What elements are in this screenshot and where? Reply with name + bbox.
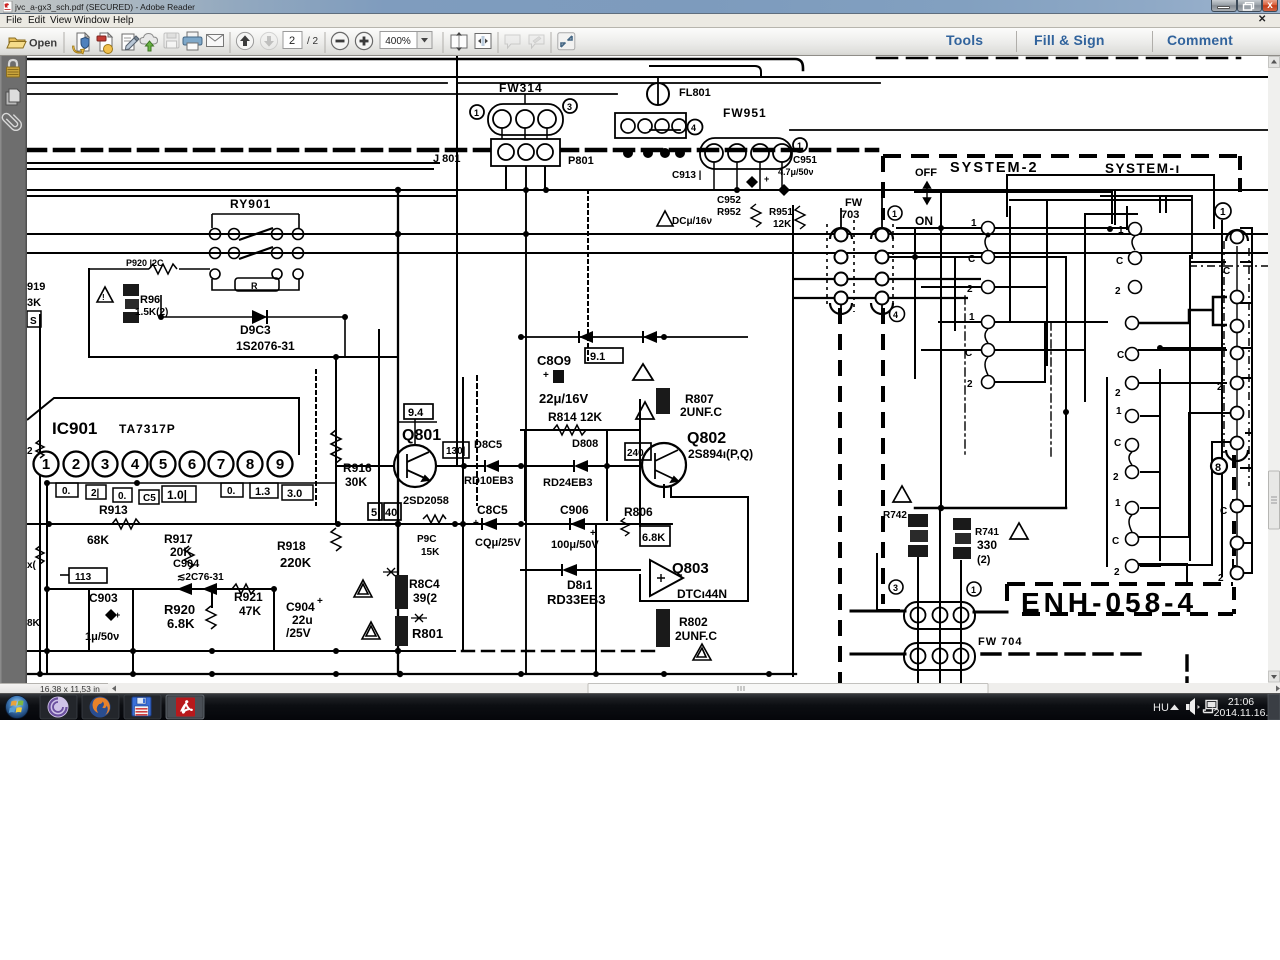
svg-text:R802: R802 — [679, 615, 708, 629]
svg-text:3: 3 — [101, 456, 109, 473]
svg-text:1: 1 — [1116, 406, 1122, 417]
svg-text:C: C — [1117, 350, 1124, 361]
svg-text:C904: C904 — [173, 558, 200, 570]
svg-text:2: 2 — [1113, 472, 1119, 483]
svg-text:R916: R916 — [343, 461, 372, 475]
svg-text:/ 2: / 2 — [307, 36, 319, 47]
svg-text:4.7μ/50ν: 4.7μ/50ν — [778, 167, 814, 177]
svg-text:2: 2 — [27, 446, 33, 457]
svg-text:4: 4 — [893, 310, 898, 320]
svg-text:P920 |2C: P920 |2C — [126, 258, 164, 268]
svg-text:SYSTEM-ı: SYSTEM-ı — [1105, 161, 1181, 176]
svg-text:ENH-058-4: ENH-058-4 — [1021, 587, 1197, 618]
svg-text:R918: R918 — [277, 539, 306, 553]
svg-text:C904: C904 — [286, 600, 315, 614]
svg-text:1: 1 — [42, 456, 50, 473]
svg-text:D8ı1: D8ı1 — [567, 578, 593, 592]
svg-text:C: C — [1116, 256, 1123, 267]
svg-text:240: 240 — [627, 448, 644, 459]
svg-text:R741: R741 — [975, 527, 999, 538]
svg-text:1: 1 — [474, 108, 479, 118]
svg-text:100μ/50V: 100μ/50V — [551, 539, 599, 551]
svg-text:SYSTEM-2: SYSTEM-2 — [950, 160, 1039, 176]
svg-text:ON: ON — [915, 214, 933, 228]
svg-text:C906: C906 — [560, 503, 589, 517]
svg-text:2UNF.C: 2UNF.C — [675, 629, 717, 643]
svg-text:C903: C903 — [89, 591, 118, 605]
svg-text:12K: 12K — [773, 219, 792, 230]
svg-text:R806: R806 — [624, 505, 653, 519]
svg-text:+: + — [115, 610, 120, 620]
svg-text:1: 1 — [971, 218, 977, 229]
svg-text:C951: C951 — [793, 155, 817, 166]
svg-text:P801: P801 — [568, 155, 594, 167]
svg-text:R: R — [251, 281, 258, 291]
svg-text:2: 2 — [1217, 382, 1223, 393]
svg-text:R807: R807 — [685, 392, 714, 406]
svg-text:R814 12K: R814 12K — [548, 410, 602, 424]
svg-text:D808: D808 — [572, 438, 598, 450]
svg-text:/25V: /25V — [286, 626, 311, 640]
svg-text:FW 704: FW 704 — [978, 636, 1023, 648]
svg-text:C: C — [1223, 266, 1230, 277]
svg-text:40: 40 — [385, 507, 397, 519]
svg-text:2SD2058: 2SD2058 — [403, 495, 449, 507]
svg-text:FW: FW — [845, 197, 863, 209]
svg-text:x(: x( — [27, 560, 37, 571]
svg-text:3K: 3K — [27, 297, 41, 309]
svg-text:DTCı44N: DTCı44N — [677, 587, 727, 601]
svg-text:Q801: Q801 — [402, 427, 441, 444]
svg-text:9: 9 — [276, 456, 284, 473]
svg-text:R8C4: R8C4 — [409, 577, 440, 591]
svg-text:1: 1 — [1115, 498, 1121, 509]
svg-text:C: C — [968, 254, 975, 265]
svg-text:1.3: 1.3 — [255, 486, 270, 498]
svg-text:R917: R917 — [164, 532, 193, 546]
svg-text:7: 7 — [217, 456, 225, 473]
svg-text:+: + — [543, 370, 549, 381]
svg-text:8K: 8K — [27, 618, 41, 629]
svg-text:68K: 68K — [87, 533, 109, 547]
svg-text:R951: R951 — [769, 207, 793, 218]
svg-text:22μ/16V: 22μ/16V — [539, 391, 588, 406]
svg-text:703: 703 — [841, 209, 859, 221]
svg-text:22u: 22u — [292, 613, 313, 627]
svg-text:C8C5: C8C5 — [477, 503, 508, 517]
svg-text:330: 330 — [977, 538, 997, 552]
svg-text:9.1: 9.1 — [590, 351, 605, 363]
svg-text:R96: R96 — [140, 294, 160, 306]
svg-text:1.0|: 1.0| — [167, 488, 187, 502]
svg-text:113: 113 — [75, 572, 92, 583]
svg-text:1: 1 — [797, 141, 802, 151]
svg-text:220K: 220K — [280, 555, 312, 570]
svg-text:C: C — [1220, 506, 1227, 517]
svg-text:5: 5 — [371, 507, 377, 519]
svg-text:2: 2 — [1115, 388, 1121, 399]
svg-text:4: 4 — [691, 123, 696, 133]
svg-text:2: 2 — [289, 35, 295, 47]
svg-text:47K: 47K — [239, 604, 261, 618]
svg-text:C952: C952 — [717, 195, 741, 206]
svg-text:TA7317P: TA7317P — [119, 422, 176, 436]
svg-text:≲2C76-31: ≲2C76-31 — [177, 572, 224, 583]
svg-text:RD33EB3: RD33EB3 — [547, 592, 606, 607]
svg-text:6.8K: 6.8K — [167, 616, 195, 631]
svg-text:30K: 30K — [345, 475, 367, 489]
svg-text:C: C — [1112, 536, 1119, 547]
svg-text:R801: R801 — [412, 626, 443, 641]
svg-text:0.: 0. — [62, 486, 71, 497]
svg-text:+: + — [590, 528, 596, 539]
svg-text:2: 2 — [72, 456, 80, 473]
svg-text:D8C5: D8C5 — [474, 439, 502, 451]
svg-text:2: 2 — [1115, 286, 1121, 297]
svg-text:D9C3: D9C3 — [240, 323, 271, 337]
svg-text:2: 2 — [967, 379, 973, 390]
svg-text:130|: 130| — [446, 446, 466, 457]
svg-text:8: 8 — [246, 456, 254, 473]
svg-text:400%: 400% — [385, 36, 411, 47]
svg-text:C5: C5 — [143, 493, 156, 504]
svg-text:Q802: Q802 — [687, 430, 726, 447]
svg-text:1: 1 — [1220, 207, 1226, 218]
svg-text:IC901: IC901 — [52, 419, 97, 438]
svg-text:!: ! — [102, 293, 105, 302]
svg-text:3.0: 3.0 — [287, 488, 302, 500]
svg-text:RD10EB3: RD10EB3 — [464, 475, 514, 487]
svg-text:FL801: FL801 — [679, 87, 711, 99]
svg-text:39(2: 39(2 — [413, 591, 437, 605]
svg-text:OFF: OFF — [915, 167, 937, 179]
svg-text:6.8K: 6.8K — [642, 532, 665, 544]
svg-text:C: C — [965, 348, 972, 359]
svg-text:HU: HU — [1153, 702, 1169, 714]
svg-text:FW951: FW951 — [723, 106, 767, 120]
svg-text:1μ/50ν: 1μ/50ν — [85, 631, 119, 643]
svg-text:R952: R952 — [717, 207, 741, 218]
svg-text:J 801: J 801 — [433, 153, 461, 165]
svg-text:3: 3 — [893, 583, 898, 593]
svg-text:15K: 15K — [421, 547, 440, 558]
svg-text:R913: R913 — [99, 503, 128, 517]
svg-text:+: + — [317, 596, 323, 607]
svg-text:1: 1 — [969, 312, 975, 323]
svg-text:1S2076-31: 1S2076-31 — [236, 339, 295, 353]
svg-text:+: + — [764, 174, 769, 184]
svg-text:R920: R920 — [164, 602, 195, 617]
svg-text:R921: R921 — [234, 590, 263, 604]
svg-text:2|: 2| — [91, 488, 100, 499]
svg-text:6: 6 — [188, 456, 196, 473]
svg-text:R742: R742 — [883, 510, 907, 521]
svg-text:2: 2 — [1114, 567, 1120, 578]
svg-text:919: 919 — [27, 281, 45, 293]
svg-text:2014.11.16.: 2014.11.16. — [1214, 707, 1269, 719]
svg-text:C8O9: C8O9 — [537, 353, 571, 368]
svg-text:2S894ı(P,Q): 2S894ı(P,Q) — [688, 447, 753, 461]
svg-text:5: 5 — [159, 456, 167, 473]
svg-text:C: C — [1114, 438, 1121, 449]
svg-text:3: 3 — [567, 102, 572, 112]
svg-text:1: 1 — [892, 209, 897, 219]
svg-text:DCμ/16ν: DCμ/16ν — [672, 216, 712, 227]
svg-text:0.: 0. — [227, 486, 236, 497]
svg-text:+: + — [473, 518, 479, 529]
svg-text:2: 2 — [967, 284, 973, 295]
svg-text:9.4: 9.4 — [408, 407, 424, 419]
svg-text:S: S — [30, 316, 37, 327]
svg-text:4: 4 — [131, 456, 140, 473]
svg-text:2: 2 — [1218, 573, 1224, 584]
svg-text:8: 8 — [1215, 462, 1221, 474]
svg-text:Open: Open — [29, 38, 57, 50]
svg-text:RD24EB3: RD24EB3 — [543, 477, 593, 489]
svg-text:1: 1 — [1118, 225, 1124, 236]
svg-text:P9C: P9C — [417, 534, 436, 545]
svg-text:CQμ/25V: CQμ/25V — [475, 537, 522, 549]
svg-text:(2): (2) — [977, 554, 991, 566]
svg-text:FW314: FW314 — [499, 81, 543, 95]
svg-text:0.: 0. — [118, 491, 127, 502]
svg-text:1: 1 — [971, 585, 976, 595]
svg-text:RY901: RY901 — [230, 197, 271, 211]
svg-text:2UNF.C: 2UNF.C — [680, 405, 722, 419]
svg-text:C913 |: C913 | — [672, 170, 702, 181]
